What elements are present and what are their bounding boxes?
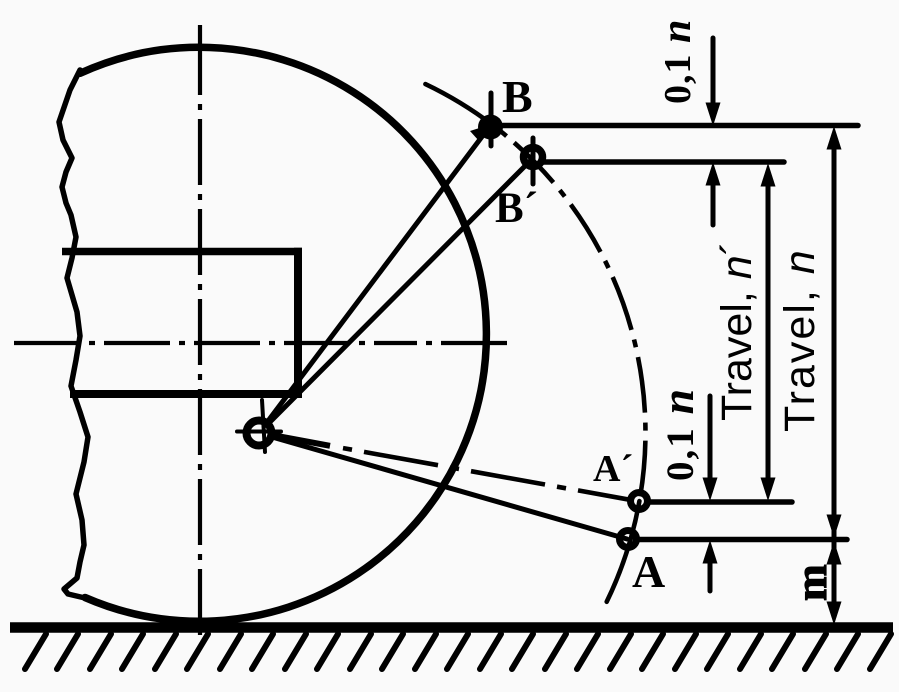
arrow up at B line (travel n) bbox=[827, 126, 842, 150]
arrow down at A line (travel n) bbox=[827, 515, 842, 539]
svg-text:0,1 n: 0,1 n bbox=[654, 19, 700, 104]
point A circle marker bbox=[620, 531, 637, 548]
travel arc solid segment above B bbox=[425, 84, 492, 125]
arrow up at A line (0,1n bottom) bbox=[703, 540, 718, 564]
svg-text:B´: B´ bbox=[495, 185, 538, 232]
B' horizontal extension line bbox=[543, 159, 784, 165]
dim line 0,1n bottom upper segment bbox=[708, 396, 713, 480]
pivot horizontal tick bbox=[237, 430, 281, 434]
svg-text:A: A bbox=[632, 546, 665, 597]
lever line pivot to A bbox=[272, 437, 627, 539]
lever line pivot to B bbox=[268, 126, 490, 421]
pivot bearing circle bbox=[247, 421, 272, 446]
svg-text:Travel, n: Travel, n bbox=[776, 248, 824, 432]
ground hatching bbox=[25, 634, 891, 669]
B horizontal extension line bbox=[503, 123, 858, 129]
arrow down at ground (m) bbox=[827, 602, 842, 626]
body notch rectangle bottom edge bbox=[70, 390, 302, 398]
jagged break line bbox=[59, 70, 88, 598]
horizontal centerline bbox=[14, 341, 507, 345]
body notch rectangle right edge bbox=[294, 248, 302, 398]
arrow down at A' line (0,1n bottom) bbox=[703, 478, 718, 502]
travel arc solid A' to beyond A bbox=[607, 501, 640, 602]
arrow down at B line bbox=[706, 103, 721, 127]
svg-text:Travel, n´: Travel, n´ bbox=[713, 241, 761, 421]
point B' circle marker bbox=[524, 148, 543, 167]
arrow up at B' line (travel n') bbox=[761, 163, 776, 187]
lever dash-dot line pivot to A' bbox=[269, 435, 630, 500]
body notch rectangle top edge bbox=[62, 248, 302, 256]
A' horizontal extension line bbox=[649, 499, 792, 505]
svg-text:m: m bbox=[787, 564, 836, 601]
dim line 0,1n bottom lower segment bbox=[708, 562, 713, 591]
svg-text:0,1 n: 0,1 n bbox=[652, 387, 703, 481]
vertical centerline bbox=[198, 25, 202, 635]
point B filled marker bbox=[478, 115, 503, 140]
arrow up at B' line bbox=[706, 162, 721, 186]
travel arc dash-dot B to A' bbox=[493, 125, 646, 501]
point B tick bbox=[489, 93, 494, 146]
ground line bbox=[10, 622, 893, 633]
svg-text:B: B bbox=[502, 71, 533, 122]
wheel circle arc bbox=[80, 47, 486, 621]
arrow up at A line (m) bbox=[827, 541, 842, 565]
dim line Travel n' bbox=[766, 180, 771, 488]
svg-text:A´: A´ bbox=[593, 448, 633, 490]
dim line Travel n / m bbox=[832, 144, 837, 608]
dim line 0,1n top upper segment bbox=[711, 38, 716, 105]
pivot vertical tick bbox=[262, 400, 265, 452]
lever line pivot to B' bbox=[268, 158, 533, 424]
point B' tick bbox=[531, 138, 536, 184]
A horizontal extension line bbox=[639, 537, 847, 543]
arrow down at A' line (travel n') bbox=[761, 478, 776, 502]
dim line 0,1n top lower segment bbox=[711, 185, 716, 225]
point A' circle marker bbox=[631, 493, 648, 510]
point B lever arrowhead bbox=[470, 123, 495, 141]
